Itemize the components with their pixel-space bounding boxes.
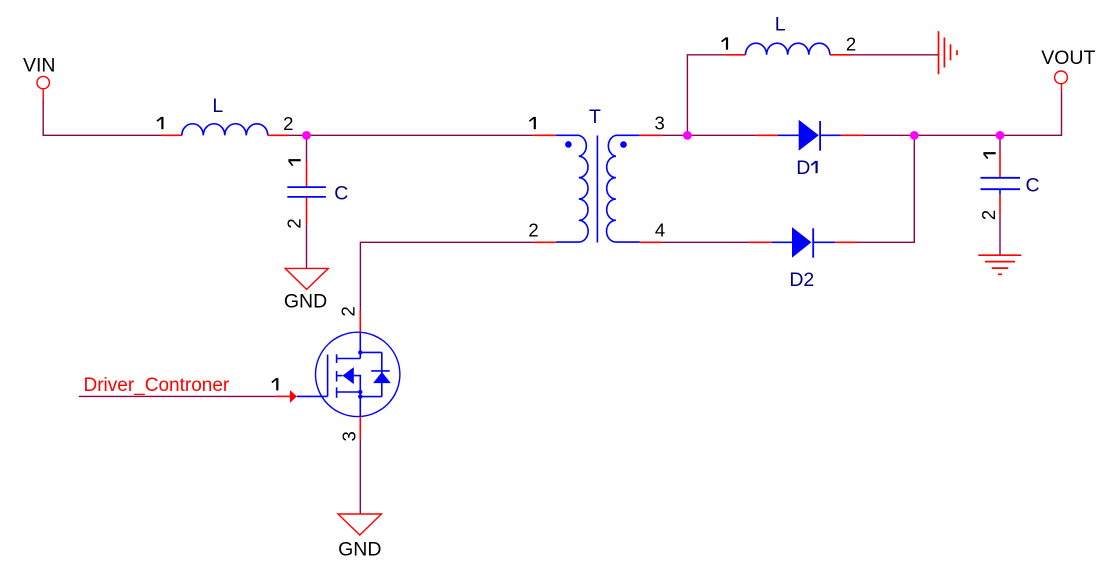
mosfet Q1 bbox=[297, 332, 400, 416]
capacitor C1 pin 2 bbox=[306, 197, 308, 225]
mosfet body diode bbox=[373, 372, 391, 383]
capacitor C2 pin 1 bbox=[999, 151, 1001, 178]
inductor L1 pin 1 bbox=[162, 134, 182, 136]
svg-text:2: 2 bbox=[337, 306, 358, 316]
svg-text:4: 4 bbox=[655, 220, 665, 241]
inductor L2 bbox=[746, 43, 830, 55]
wire to cap junction bbox=[914, 134, 1000, 136]
junction node secondary top bbox=[683, 131, 692, 140]
svg-text:L: L bbox=[212, 95, 223, 117]
transformer T secondary winding bbox=[607, 135, 640, 242]
svg-text:GND: GND bbox=[284, 291, 327, 313]
transformer T pin 3 bbox=[640, 134, 662, 136]
transformer T pin 1 bbox=[534, 134, 556, 136]
wire D1 to junction bbox=[863, 134, 914, 136]
inductor L1 pin 2 bbox=[268, 134, 289, 136]
wire transformer pin2 to mosfet drain bbox=[360, 242, 533, 310]
power port GND left bbox=[285, 268, 328, 289]
wire driver red segment bbox=[275, 395, 290, 397]
polarity dot secondary bbox=[620, 141, 627, 148]
wire L2 to earth bbox=[852, 54, 939, 56]
capacitor C1 pin 1 bbox=[306, 162, 308, 188]
transformer T pin 4 bbox=[640, 241, 662, 243]
mosfet pin 1 number bbox=[272, 378, 277, 390]
svg-text:3: 3 bbox=[339, 431, 360, 441]
mosfet pin 2 bbox=[359, 311, 361, 333]
transformer core bbox=[596, 136, 598, 243]
wire driver bbox=[79, 395, 275, 397]
wire C2 to earth bbox=[999, 216, 1001, 255]
svg-text:VIN: VIN bbox=[23, 55, 56, 77]
junction node output cap bbox=[996, 131, 1005, 140]
diode D1 bbox=[756, 120, 863, 151]
junction node diodes bbox=[910, 131, 919, 140]
inductor L2 pin 1 bbox=[725, 54, 745, 56]
wire L1 to transformer bbox=[289, 134, 534, 136]
wire to vout corner bbox=[1000, 91, 1062, 135]
mosfet pin 3 bbox=[359, 417, 361, 440]
svg-text:2: 2 bbox=[283, 113, 293, 134]
svg-text:Driver_Controner: Driver_Controner bbox=[84, 375, 230, 396]
inductor L1 bbox=[182, 124, 268, 136]
wire junction to C1 bbox=[306, 135, 308, 161]
arrow head driver bbox=[290, 390, 297, 403]
capacitor C2 bbox=[981, 178, 1021, 189]
inductor L2 pin 2 bbox=[830, 54, 852, 56]
svg-text:T: T bbox=[589, 106, 601, 128]
svg-text:D: D bbox=[796, 157, 810, 179]
power port GND bottom bbox=[338, 514, 381, 535]
svg-text:GND: GND bbox=[338, 539, 381, 561]
svg-text:3: 3 bbox=[654, 113, 664, 134]
svg-text:VOUT: VOUT bbox=[1041, 47, 1095, 69]
diode D2 bbox=[749, 227, 856, 258]
wire junction to C2 bbox=[999, 135, 1001, 151]
capacitor C2 pin 2 bbox=[999, 189, 1001, 195]
transformer T pin 2 bbox=[534, 241, 556, 243]
capacitor C1 bbox=[287, 187, 326, 197]
polarity dot primary bbox=[565, 141, 572, 148]
mosfet arrow bbox=[343, 367, 354, 384]
wire pin4 to D2 bbox=[662, 241, 750, 243]
svg-text:2: 2 bbox=[284, 218, 305, 228]
mosfet junction dots bbox=[358, 350, 362, 354]
svg-text:C: C bbox=[334, 183, 348, 205]
svg-text:2: 2 bbox=[978, 210, 999, 220]
earth ground top right bbox=[939, 31, 958, 74]
port VOUT bbox=[1055, 71, 1068, 91]
svg-text:L: L bbox=[775, 13, 786, 35]
wire junction to L2 bbox=[687, 55, 725, 136]
svg-text:C: C bbox=[1025, 174, 1039, 196]
transformer T primary winding bbox=[556, 135, 588, 242]
svg-text:2: 2 bbox=[528, 220, 538, 241]
junction node input bbox=[302, 131, 311, 140]
wire D2 up to junction bbox=[857, 135, 915, 242]
earth ground bottom right bbox=[978, 255, 1021, 274]
wire mosfet source to GND bbox=[359, 439, 361, 514]
wire C1 to GND bbox=[306, 225, 308, 269]
wire VIN to L bbox=[43, 99, 162, 136]
port VIN bbox=[37, 76, 49, 98]
svg-text:2: 2 bbox=[846, 33, 856, 54]
svg-text:D2: D2 bbox=[789, 269, 814, 291]
wire pin3 to D1 bbox=[662, 134, 756, 136]
